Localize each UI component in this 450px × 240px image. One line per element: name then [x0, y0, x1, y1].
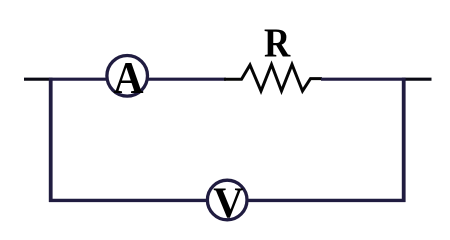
- wire right vertical: [402, 78, 406, 202]
- wire top segment junction-to-ammeter: [49, 78, 107, 81]
- wire top segment resistor-to-junction: [321, 78, 404, 81]
- svg-text:V: V: [213, 179, 244, 227]
- resistor R zigzag: [224, 65, 322, 92]
- wire bottom-left segment: [49, 199, 208, 202]
- node left junction: [49, 78, 52, 81]
- ammeter A1 circle: [107, 56, 148, 97]
- wire left vertical: [49, 78, 53, 202]
- voltmeter V1 circle: [207, 180, 247, 220]
- node right junction: [402, 78, 406, 81]
- svg-text:R: R: [264, 20, 291, 66]
- wire left stub: [24, 78, 50, 81]
- svg-text:A: A: [113, 53, 144, 103]
- wire right stub: [404, 78, 432, 81]
- wire top segment ammeter-to-resistor: [148, 78, 227, 81]
- wire bottom-right segment: [247, 199, 406, 202]
